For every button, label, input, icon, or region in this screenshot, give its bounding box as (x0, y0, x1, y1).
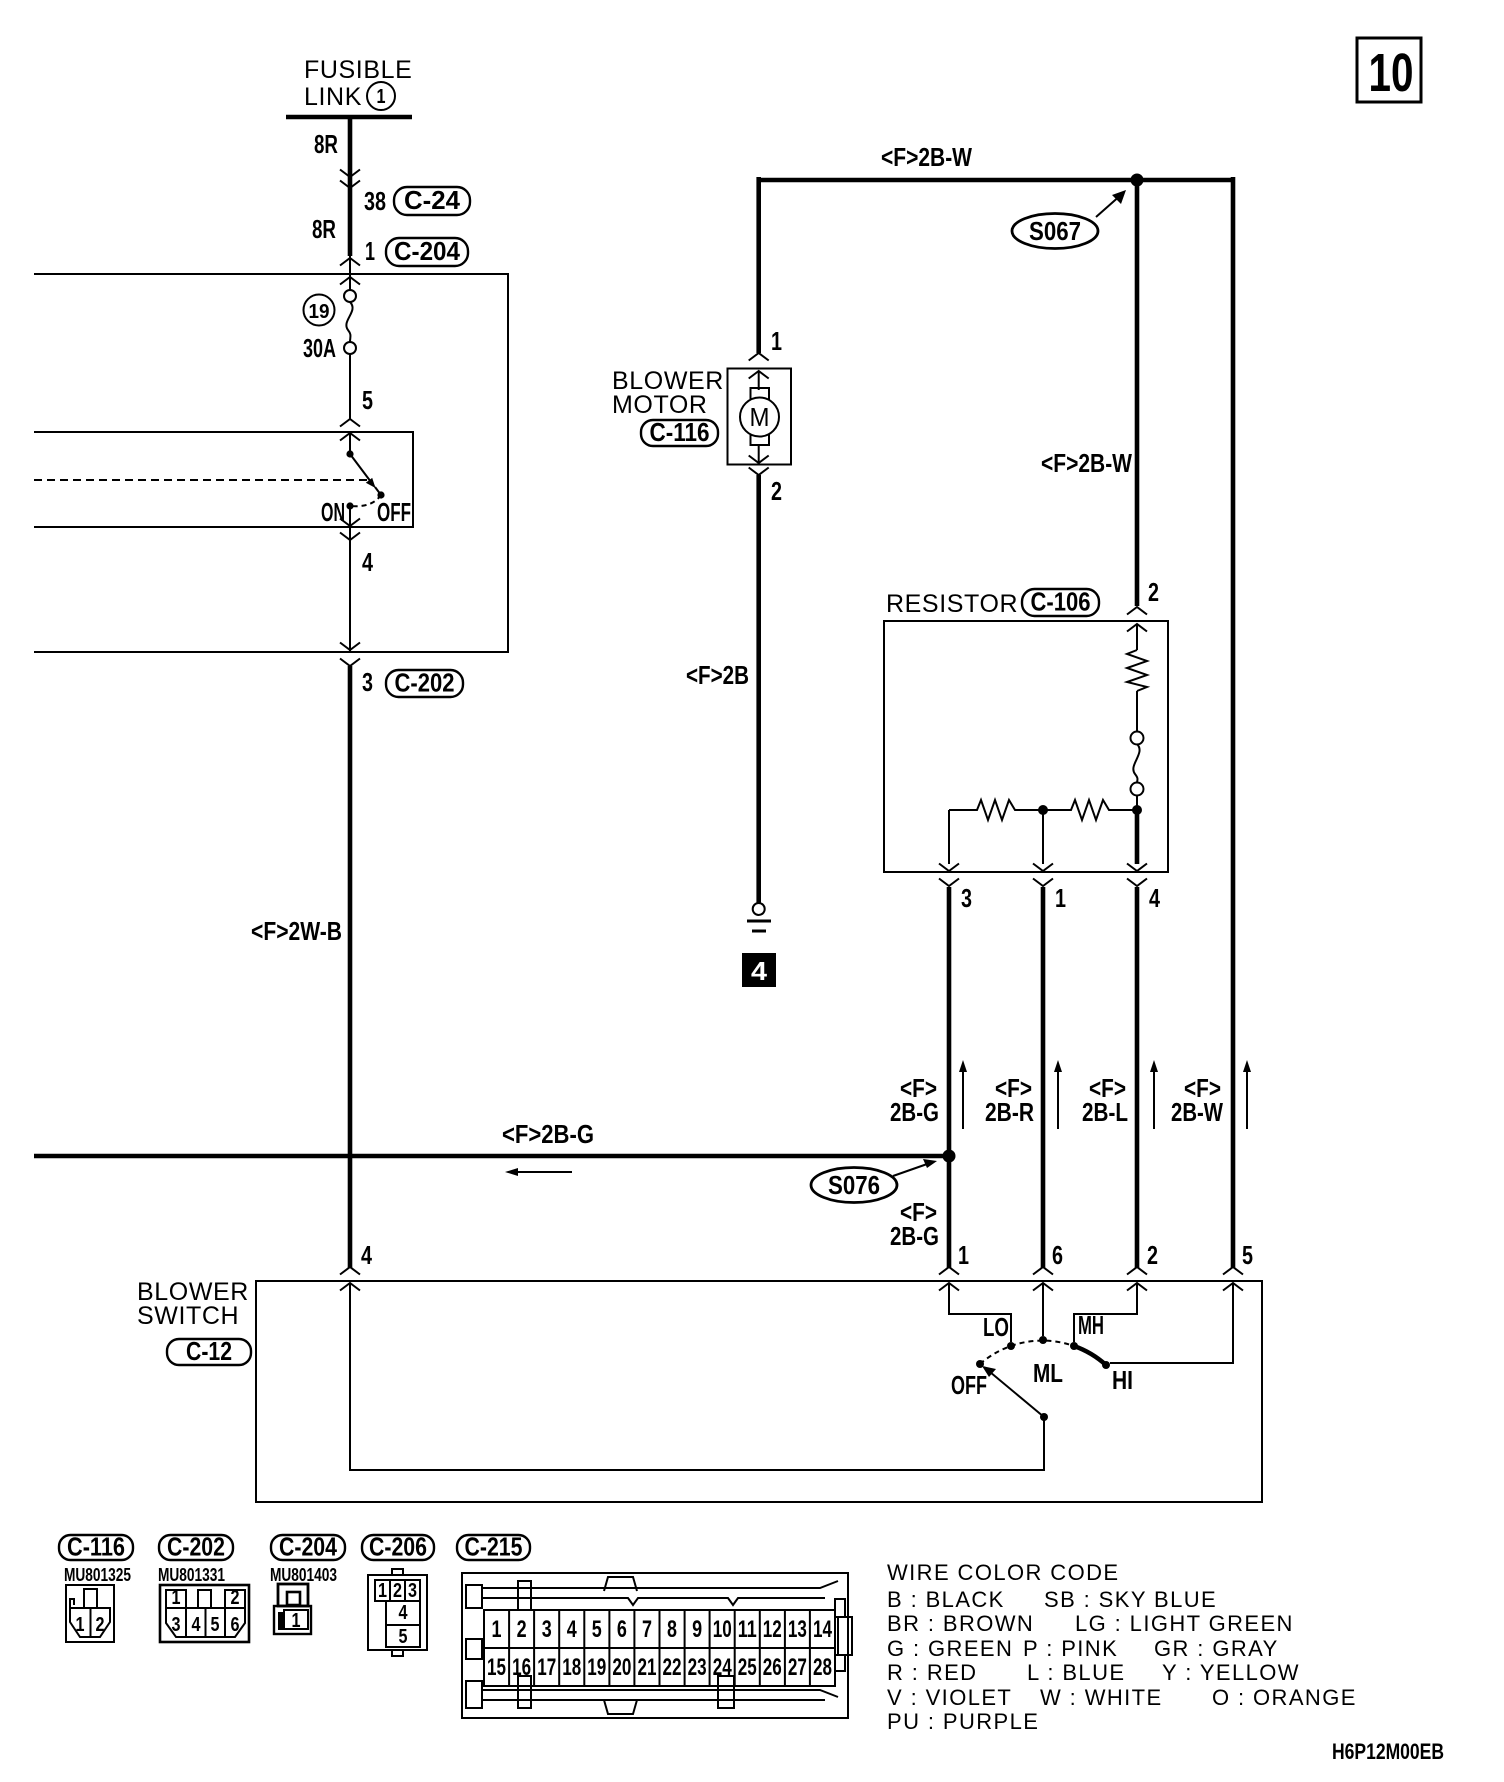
svg-text:<F>2B-W: <F>2B-W (1041, 448, 1132, 478)
flow arrow left (505, 1168, 572, 1176)
svg-text:6: 6 (617, 1616, 627, 1643)
svg-text:2: 2 (1147, 1240, 1158, 1270)
svg-text:5: 5 (362, 385, 373, 415)
svg-text:PU : PURPLE: PU : PURPLE (887, 1709, 1039, 1734)
svg-text:C-116: C-116 (67, 1532, 125, 1562)
chevron (1033, 879, 1053, 887)
svg-text:<F>2B-W: <F>2B-W (881, 142, 972, 172)
svg-text:10: 10 (713, 1616, 732, 1643)
svg-text:M: M (750, 402, 770, 432)
wire to switch pivot (349, 433, 351, 454)
svg-text:ML: ML (1033, 1358, 1063, 1388)
svg-text:2: 2 (1148, 577, 1159, 607)
motor symbol (740, 371, 779, 463)
svg-text:4: 4 (361, 1240, 372, 1270)
svg-text:7: 7 (642, 1616, 652, 1643)
svg-text:2: 2 (771, 476, 782, 506)
connector label C-116 (641, 417, 718, 447)
dashed wiper arc (350, 495, 381, 506)
chevron (340, 533, 360, 541)
blower motor label (612, 367, 724, 419)
ground symbol (747, 903, 771, 931)
ignition switch box (open left) (34, 432, 413, 527)
chevron (1223, 1267, 1243, 1275)
wire from ON contact down (349, 506, 351, 652)
svg-text:2B-G: 2B-G (890, 1097, 939, 1127)
connector view C-204 (274, 1584, 311, 1634)
chevron (1223, 1283, 1243, 1291)
dashed interlock line (34, 479, 369, 481)
wire into resistor HI element (1136, 624, 1138, 650)
svg-text:1: 1 (365, 236, 375, 266)
resistor element vertical (1127, 650, 1147, 691)
svg-text:2B-R: 2B-R (985, 1097, 1034, 1127)
wire from fuse to switch (349, 354, 351, 419)
svg-text:27: 27 (788, 1654, 807, 1681)
wire resistor pin 1 internal (1042, 810, 1044, 864)
splice callout S076 (811, 1159, 937, 1203)
svg-text:20: 20 (612, 1654, 631, 1681)
contact HI node (1102, 1361, 1110, 1369)
chevron (939, 879, 959, 887)
svg-text:1: 1 (377, 86, 386, 108)
blower switch label (137, 1278, 249, 1330)
svg-text:10: 10 (1369, 43, 1414, 103)
contact ON node (346, 502, 353, 509)
dashed wiper arc OFF to MH (980, 1341, 1074, 1364)
svg-text:GR : GRAY: GR : GRAY (1154, 1636, 1279, 1661)
connector view label C-202 (159, 1532, 233, 1562)
svg-text:17: 17 (537, 1654, 556, 1681)
svg-text:Y : YELLOW: Y : YELLOW (1162, 1660, 1300, 1685)
svg-text:25: 25 (738, 1654, 757, 1681)
svg-text:15: 15 (487, 1654, 506, 1681)
connector view label C-116 (59, 1532, 133, 1562)
svg-text:SWITCH: SWITCH (137, 1302, 239, 1330)
svg-text:1: 1 (492, 1616, 502, 1643)
connector view C-116 (66, 1585, 114, 1642)
svg-text:3: 3 (408, 1580, 417, 1602)
ground reference 4 black box (742, 953, 776, 987)
svg-text:G : GREEN: G : GREEN (887, 1636, 1013, 1661)
svg-text:C-204: C-204 (279, 1532, 337, 1562)
chevron (1033, 864, 1053, 872)
svg-text:19: 19 (309, 301, 330, 323)
svg-text:8R: 8R (312, 214, 336, 244)
flow arrow 2B-L (1150, 1060, 1158, 1129)
svg-text:2: 2 (231, 1587, 240, 1609)
svg-text:16: 16 (512, 1654, 531, 1681)
page number box 10 (1357, 38, 1421, 103)
contact LO node (1007, 1342, 1015, 1350)
chevron (749, 468, 769, 476)
svg-text:5: 5 (211, 1614, 220, 1636)
svg-text:BR : BROWN: BR : BROWN (887, 1611, 1034, 1636)
junction node S076 (943, 1150, 956, 1163)
svg-text:P : PINK: P : PINK (1023, 1636, 1118, 1661)
svg-text:LG : LIGHT GREEN: LG : LIGHT GREEN (1075, 1611, 1294, 1636)
svg-text:L : BLUE: L : BLUE (1027, 1660, 1125, 1685)
connector label C-24 (394, 185, 470, 215)
svg-text:26: 26 (763, 1654, 782, 1681)
wire thermal fuse to node (1136, 795, 1138, 810)
chevron (340, 170, 360, 178)
junction node S067 (1131, 174, 1144, 187)
wire down to blower motor (756, 177, 761, 353)
switch internal wire pin 1 to LO (949, 1283, 1011, 1342)
chevron (340, 258, 360, 266)
chevron (1127, 879, 1147, 887)
svg-text:LO: LO (983, 1312, 1009, 1342)
svg-text:C-206: C-206 (369, 1532, 427, 1562)
wire color code legend (887, 1560, 1357, 1734)
svg-text:S076: S076 (828, 1170, 880, 1200)
chevron (340, 659, 360, 667)
svg-text:1: 1 (771, 326, 782, 356)
chevron (340, 433, 360, 441)
connector label C-202 (386, 668, 463, 698)
svg-text:<F>2W-B: <F>2W-B (251, 916, 342, 946)
svg-text:WIRE COLOR CODE: WIRE COLOR CODE (887, 1560, 1119, 1585)
fuse number 19 circled (304, 295, 335, 326)
svg-text:23: 23 (688, 1654, 707, 1681)
svg-text:2: 2 (517, 1616, 527, 1643)
svg-text:W : WHITE: W : WHITE (1040, 1685, 1163, 1710)
chevron (749, 456, 769, 464)
switch internal wire pin 2 to MH (1074, 1283, 1137, 1342)
svg-text:22: 22 (663, 1654, 682, 1681)
svg-text:O : ORANGE: O : ORANGE (1212, 1685, 1357, 1710)
svg-text:2: 2 (96, 1614, 105, 1636)
svg-text:SB : SKY BLUE: SB : SKY BLUE (1044, 1587, 1217, 1612)
svg-text:OFF: OFF (951, 1370, 987, 1400)
wire resistor pin 3 internal (948, 810, 950, 864)
svg-text:1: 1 (76, 1614, 85, 1636)
svg-text:MU801331: MU801331 (158, 1565, 225, 1585)
chevron (1033, 1267, 1053, 1275)
fusible link bus bar (286, 115, 412, 120)
svg-text:2: 2 (393, 1580, 402, 1602)
flow arrow 2B-G (959, 1060, 967, 1129)
svg-text:1: 1 (1055, 883, 1066, 913)
chevron (1127, 624, 1147, 632)
connector label C-204 (386, 236, 468, 266)
wire 8R from fusible link (348, 117, 353, 256)
svg-text:C-204: C-204 (394, 236, 460, 266)
chevron (939, 1267, 959, 1275)
chevron (340, 419, 360, 427)
wire 2B to ground (756, 475, 761, 903)
svg-text:HI: HI (1112, 1365, 1133, 1395)
svg-text:8: 8 (667, 1616, 677, 1643)
wire 2B-L vertical (1135, 887, 1140, 1268)
chevron (340, 277, 360, 285)
chevron (1127, 864, 1147, 872)
thermal fuse symbol (1131, 732, 1144, 796)
svg-text:1: 1 (378, 1580, 387, 1602)
connector label C-106 (1022, 587, 1099, 617)
chevron (340, 519, 360, 527)
switch lever (350, 454, 381, 495)
connector view label C-204 (271, 1532, 345, 1562)
contact OFF node (377, 491, 384, 498)
switch internal wire pivot to pin 4 (350, 1283, 1044, 1470)
svg-text:4: 4 (1149, 883, 1160, 913)
switch lever blower (982, 1366, 1044, 1417)
svg-text:MU801403: MU801403 (270, 1565, 337, 1585)
resistor box (884, 621, 1168, 872)
svg-text:5: 5 (1242, 1240, 1253, 1270)
svg-text:RESISTOR: RESISTOR (886, 590, 1018, 618)
switch pivot node blower (1040, 1413, 1048, 1421)
connector view label C-215 (457, 1532, 530, 1562)
svg-text:18: 18 (562, 1654, 581, 1681)
svg-text:3: 3 (961, 883, 972, 913)
svg-text:6: 6 (231, 1614, 240, 1636)
resistor element ML horizontal (949, 800, 1137, 820)
svg-text:C-202: C-202 (167, 1532, 225, 1562)
svg-text:1: 1 (292, 1610, 301, 1632)
svg-text:3: 3 (542, 1616, 552, 1643)
svg-text:1: 1 (172, 1587, 181, 1609)
connector view C-202 (160, 1585, 249, 1642)
svg-text:9: 9 (692, 1616, 702, 1643)
contact MH node (1070, 1342, 1078, 1350)
svg-text:2B-W: 2B-W (1171, 1097, 1223, 1127)
svg-text:8R: 8R (314, 129, 338, 159)
connector view label C-206 (362, 1532, 434, 1562)
wire 2B-G vertical (947, 887, 952, 1268)
connector view C-206 (368, 1569, 427, 1656)
splice callout S067 (1012, 190, 1126, 249)
svg-text:C-116: C-116 (650, 417, 710, 447)
svg-text:12: 12 (763, 1616, 782, 1643)
chevron (340, 643, 360, 651)
chevron (340, 1283, 360, 1291)
junction block box (open left) (34, 274, 508, 652)
contact ML node (1039, 1336, 1047, 1344)
blower motor box (728, 369, 792, 465)
svg-text:B : BLACK: B : BLACK (887, 1587, 1005, 1612)
flow arrow 2B-R (1054, 1060, 1062, 1129)
svg-text:OFF: OFF (377, 497, 411, 527)
svg-text:C-12: C-12 (186, 1336, 232, 1366)
svg-text:4: 4 (751, 956, 768, 986)
flow arrow 2B-W (1243, 1060, 1251, 1129)
contact OFF node (976, 1360, 984, 1368)
svg-text:38: 38 (364, 186, 386, 216)
svg-text:5: 5 (592, 1616, 602, 1643)
svg-text:R : RED: R : RED (887, 1660, 977, 1685)
switch internal wire pin 6 to ML (1042, 1283, 1044, 1336)
svg-text:11: 11 (738, 1616, 757, 1643)
svg-text:1: 1 (958, 1240, 969, 1270)
svg-text:LINK: LINK (304, 83, 362, 111)
wire to thermal fuse (1136, 691, 1138, 732)
svg-text:6: 6 (1052, 1240, 1063, 1270)
svg-text:21: 21 (638, 1654, 657, 1681)
svg-text:4: 4 (399, 1602, 409, 1624)
resistor internal node right (1132, 805, 1142, 815)
wire resistor pin 4 internal (1135, 812, 1140, 864)
chevron (749, 371, 769, 379)
switch internal wire pin 5 to HI (1110, 1283, 1233, 1363)
wiper arc MH to HI thick (1074, 1346, 1106, 1365)
chevron (1127, 1283, 1147, 1291)
chevron (1127, 607, 1147, 615)
switch pivot node (346, 450, 353, 457)
svg-text:24: 24 (713, 1654, 732, 1681)
resistor internal node mid (1038, 805, 1048, 815)
svg-text:3: 3 (172, 1614, 181, 1636)
connector label C-12 (167, 1336, 251, 1366)
fuse 19 circle symbol (344, 290, 356, 354)
svg-text:5: 5 (399, 1626, 408, 1648)
svg-text:S067: S067 (1029, 216, 1081, 246)
svg-text:C-202: C-202 (395, 668, 455, 698)
svg-text:FUSIBLE: FUSIBLE (304, 56, 412, 84)
svg-text:3: 3 (362, 667, 373, 697)
svg-text:30A: 30A (303, 333, 336, 363)
svg-text:C-215: C-215 (465, 1532, 523, 1562)
wire 2W-B long vertical (348, 666, 353, 1268)
chevron (939, 1283, 959, 1291)
wire from S067 to resistor (1135, 180, 1140, 606)
chevron (749, 353, 769, 361)
wire into fuse (349, 256, 351, 290)
connector view C-215 (462, 1573, 852, 1718)
svg-text:2B-G: 2B-G (890, 1221, 939, 1251)
svg-text:<F>2B-G: <F>2B-G (502, 1119, 594, 1149)
chevron (340, 181, 360, 189)
chevron (340, 1267, 360, 1275)
svg-text:C-24: C-24 (404, 185, 461, 215)
chevron (939, 864, 959, 872)
wire 2B-R vertical (1041, 887, 1046, 1268)
wire 2B-W top horizontal (758, 178, 1233, 183)
svg-text:2B-L: 2B-L (1082, 1097, 1128, 1127)
blower switch box (256, 1281, 1262, 1502)
svg-text:V : VIOLET: V : VIOLET (887, 1685, 1012, 1710)
svg-text:<F>2B: <F>2B (686, 660, 749, 690)
svg-text:MOTOR: MOTOR (612, 391, 708, 419)
svg-text:4: 4 (362, 547, 373, 577)
svg-text:MU801325: MU801325 (64, 1565, 131, 1585)
svg-text:C-106: C-106 (1031, 587, 1091, 617)
svg-text:4: 4 (567, 1616, 577, 1643)
svg-text:MH: MH (1078, 1310, 1104, 1340)
svg-text:28: 28 (813, 1654, 832, 1681)
svg-text:14: 14 (813, 1616, 832, 1643)
chevron (1033, 1283, 1053, 1291)
svg-text:4: 4 (192, 1614, 202, 1636)
svg-text:19: 19 (587, 1654, 606, 1681)
wire 2B-G horizontal feed (34, 1154, 949, 1159)
svg-text:ON: ON (321, 497, 345, 527)
fusible link label (304, 56, 412, 111)
chevron (1127, 1267, 1147, 1275)
wire 2B-W right vertical (1231, 177, 1236, 1268)
svg-text:13: 13 (788, 1616, 807, 1643)
svg-text:H6P12M00EB: H6P12M00EB (1332, 1739, 1444, 1764)
